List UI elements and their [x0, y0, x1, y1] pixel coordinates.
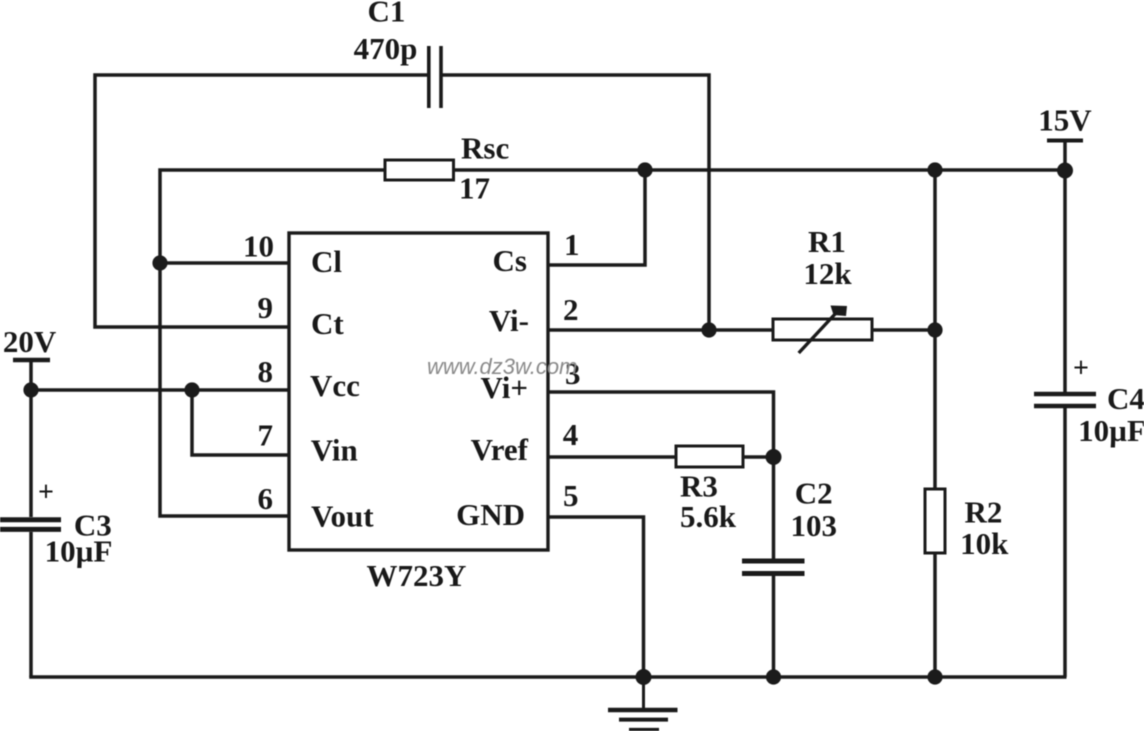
svg-text:1: 1	[564, 227, 580, 262]
wire: Rsc left lead to x160 rail down to Vout pin 6	[160, 170, 385, 516]
svg-text:Vref: Vref	[471, 432, 529, 467]
wire: 15V terminal down to C4 top plate	[1063, 141, 1067, 392]
svg-text:20V: 20V	[3, 324, 57, 359]
svg-text:W723Y: W723Y	[367, 558, 467, 593]
svg-text:12k: 12k	[803, 256, 852, 291]
wire: C2 top lead	[772, 457, 776, 559]
svg-text:8: 8	[258, 354, 274, 389]
svg-text:+: +	[38, 477, 54, 508]
wire: branch to Vin pin 7	[192, 390, 289, 455]
svg-text:Vout: Vout	[311, 499, 374, 534]
svg-text:C2: C2	[795, 476, 833, 511]
wire: pin 10 Cl from x160 rail	[160, 261, 289, 265]
capacitor C4 plates	[1034, 394, 1096, 406]
svg-text:5.6k: 5.6k	[680, 499, 737, 534]
svg-text:4: 4	[563, 417, 579, 452]
node: Vin branch junction	[184, 382, 199, 397]
svg-text:Cs: Cs	[493, 243, 527, 278]
power terminal 20V bar	[13, 358, 50, 363]
power terminal 15V bar	[1047, 139, 1083, 143]
svg-text:R2: R2	[965, 495, 1003, 530]
wire: pin 3 Vi+ across and down to Vref node	[548, 392, 774, 457]
svg-text:Vi-: Vi-	[489, 303, 529, 338]
svg-text:R1: R1	[808, 224, 846, 259]
svg-text:10µF: 10µF	[45, 534, 113, 569]
svg-text:7: 7	[258, 418, 274, 453]
resistor R2 body	[925, 489, 945, 553]
wire: C3 bottom plate down to ground rail	[29, 532, 33, 677]
svg-text:103: 103	[790, 508, 837, 543]
resistor R3 body	[676, 446, 743, 467]
wire: Rsc right lead across to 15V node	[454, 168, 1066, 172]
wire: pin 1 Cs up to Rsc net	[548, 170, 645, 265]
wire: pin 4 Vref to R3 left lead	[548, 455, 676, 459]
resistor Rsc body	[385, 160, 454, 180]
svg-text:5: 5	[563, 478, 579, 513]
svg-text:17: 17	[459, 171, 490, 206]
svg-text:Ct: Ct	[311, 306, 344, 341]
svg-text:C4: C4	[1107, 381, 1144, 416]
wire: R1 right lead to R2 rail	[872, 328, 935, 332]
wire: C2 bottom lead to ground rail	[772, 576, 776, 677]
wire: R2 bottom lead to ground rail	[933, 553, 937, 677]
IC U1 W723Y body	[289, 233, 548, 550]
wire: R3 right lead to C2 node	[743, 455, 774, 459]
node: Cs/Rsc junction	[637, 162, 652, 177]
node: 20V/Vcc junction	[23, 382, 38, 397]
node: ground rail at GND pin	[636, 669, 652, 685]
node: R2 rail top junction	[927, 162, 942, 177]
resistor R1 wiper arrow	[799, 306, 847, 354]
svg-text:+: +	[1073, 353, 1089, 384]
svg-text:C1: C1	[368, 0, 406, 29]
node: pin 10 junction	[152, 255, 167, 270]
node: ground rail at C2	[766, 669, 781, 684]
node: R1 right junction	[927, 322, 942, 337]
svg-text:9: 9	[258, 290, 274, 325]
wire: C1 left plate to left rail down to Ct pin 9	[95, 75, 428, 327]
node: Vi-/C1 junction	[701, 322, 716, 337]
wire: 20V rail to Vcc pin 8	[31, 388, 289, 392]
svg-text:6: 6	[258, 481, 274, 516]
resistor R1 body (variable)	[773, 319, 872, 340]
svg-text:www.dz3w.com: www.dz3w.com	[427, 354, 577, 379]
wire: R2 top rail from Rsc net	[933, 170, 937, 489]
svg-text:Cl: Cl	[311, 244, 342, 279]
svg-text:15V: 15V	[1038, 103, 1092, 138]
svg-text:Rsc: Rsc	[461, 131, 509, 166]
capacitor C1 plates	[429, 46, 441, 108]
svg-text:10µF: 10µF	[1078, 413, 1144, 448]
node: 15V junction	[1057, 163, 1073, 179]
ground symbol	[608, 677, 678, 730]
svg-text:Vcc: Vcc	[310, 368, 360, 403]
svg-text:GND: GND	[456, 497, 525, 532]
svg-text:2: 2	[563, 292, 579, 327]
wire: 20V terminal down to C3 top plate	[29, 360, 33, 517]
node: ground rail at R2	[927, 669, 942, 684]
svg-text:10: 10	[243, 229, 274, 264]
wire: pin 5 GND down to ground rail	[548, 517, 644, 677]
svg-text:470p: 470p	[354, 31, 418, 66]
capacitor C2 plates	[742, 561, 805, 574]
wire: C4 bottom plate down to ground rail corner	[1063, 408, 1067, 677]
node: Vref/R3/C2 junction	[766, 449, 782, 465]
capacitor C3 plates	[0, 520, 61, 530]
svg-text:Vin: Vin	[311, 433, 358, 468]
wire: bottom ground rail	[31, 676, 1067, 678]
svg-text:10k: 10k	[960, 526, 1009, 561]
wire: pin 2 Vi- to R1 left lead	[548, 328, 773, 332]
wire: C1 right plate across to Vi- node vertical	[441, 75, 709, 330]
